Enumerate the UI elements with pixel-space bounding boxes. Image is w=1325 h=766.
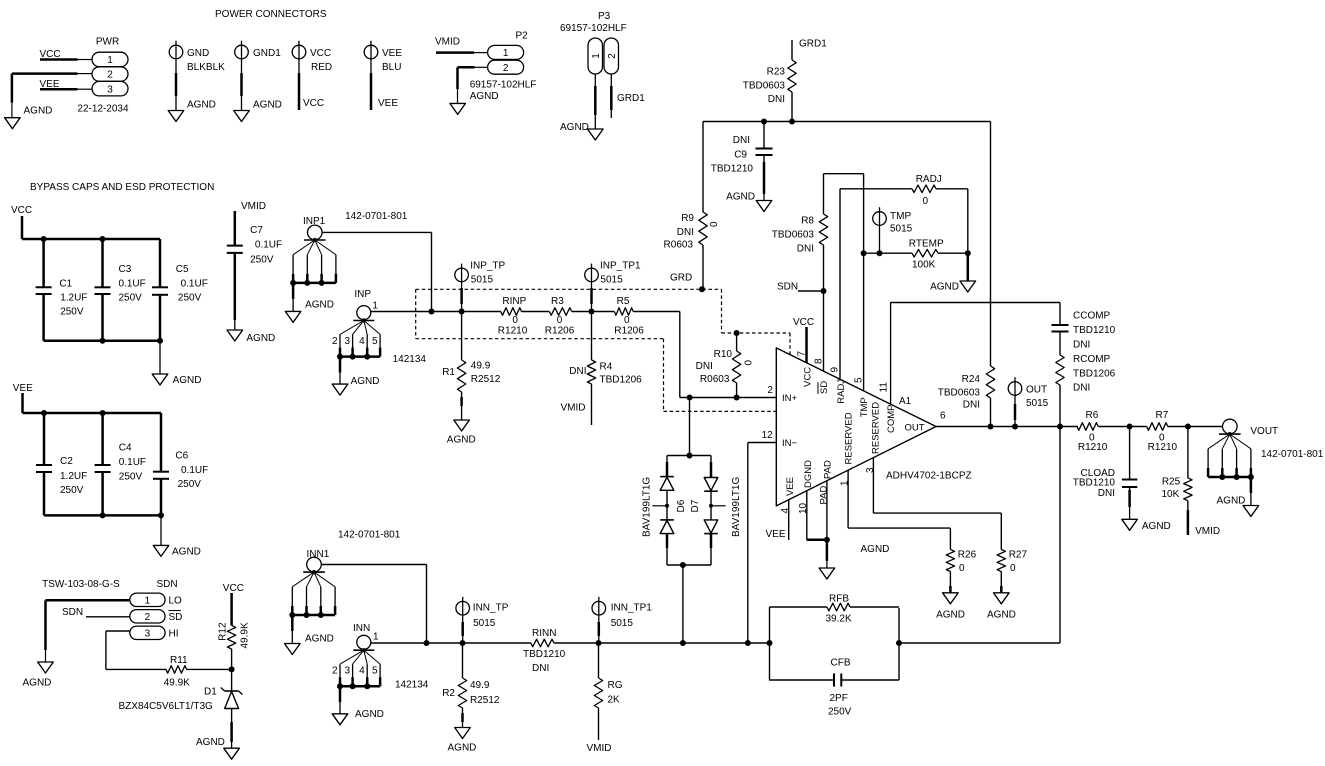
capacitor C4 0.1UF 250V — [95, 413, 146, 515]
svg-text:VCC: VCC — [793, 317, 814, 328]
svg-text:AGND: AGND — [726, 192, 755, 203]
svg-text:RADJ: RADJ — [836, 379, 847, 404]
svg-text:AGND: AGND — [930, 282, 959, 293]
wire INP pin1 along input row — [371, 311, 501, 313]
connector INP1 142-0701-801 — [285, 211, 408, 322]
svg-text:11: 11 — [878, 382, 889, 393]
svg-text:RED: RED — [311, 62, 332, 73]
test point INP_TP 5015 — [455, 261, 506, 312]
svg-text:5015: 5015 — [611, 618, 634, 629]
ground AGND (P2 pin 2) — [450, 103, 466, 114]
svg-text:VEE: VEE — [785, 477, 796, 496]
svg-text:R7: R7 — [1156, 410, 1169, 421]
svg-text:CFB: CFB — [831, 658, 851, 669]
svg-text:250V: 250V — [119, 293, 143, 304]
svg-text:1: 1 — [145, 595, 151, 606]
resistor R8 TBD0603 DNI — [772, 214, 828, 255]
svg-text:DNI: DNI — [733, 135, 750, 146]
svg-text:RESERVED: RESERVED — [844, 412, 855, 464]
svg-text:5015: 5015 — [1026, 398, 1049, 409]
resistor RFB 39.2K — [770, 593, 900, 643]
svg-text:DGND: DGND — [803, 460, 814, 488]
svg-text:BAV199LT1G: BAV199LT1G — [641, 477, 652, 537]
test point GND (BLKBLK) — [169, 41, 225, 111]
resistor R9 DNI 0 R0603 — [664, 212, 720, 251]
svg-text:POWER CONNECTORS: POWER CONNECTORS — [215, 9, 327, 20]
connector P3 (69157-102HLF) — [560, 11, 645, 133]
svg-text:RCOMP: RCOMP — [1073, 354, 1111, 365]
svg-text:3: 3 — [345, 666, 351, 677]
capacitor C6 0.1UF 250V — [153, 413, 208, 515]
svg-text:AGND: AGND — [355, 709, 384, 720]
wire to ground — [159, 341, 161, 374]
ground AGND (RTEMP) — [960, 281, 976, 292]
svg-text:ADHV4702-1BCPZ: ADHV4702-1BCPZ — [886, 471, 972, 482]
connector INN 142134 — [332, 623, 429, 725]
svg-text:22-12-2034: 22-12-2034 — [77, 104, 129, 115]
resistor RG 2K — [587, 643, 623, 754]
wire R12 to node — [231, 649, 233, 669]
svg-text:AGND: AGND — [187, 100, 216, 111]
svg-text:250V: 250V — [178, 479, 202, 490]
wire VCC to R12 — [230, 593, 233, 625]
capacitor CFB 2PF 250V — [770, 643, 900, 718]
svg-text:GND1: GND1 — [253, 48, 281, 59]
junction (TMP line) — [861, 250, 867, 256]
svg-text:VCC: VCC — [11, 205, 32, 216]
svg-text:69157-102HLF: 69157-102HLF — [560, 23, 627, 34]
wire pin 10 DGND to pad — [806, 491, 808, 540]
svg-text:AGND: AGND — [861, 544, 890, 555]
wire RINN to node — [554, 642, 770, 644]
svg-text:DNI: DNI — [696, 361, 713, 372]
ground AGND (VCC bypass) — [152, 374, 168, 385]
junction — [229, 666, 235, 672]
test point INP_TP1 5015 — [585, 261, 641, 312]
svg-text:BYPASS CAPS AND ESD PROTECTION: BYPASS CAPS AND ESD PROTECTION — [30, 182, 214, 193]
connector INN1 142-0701-801 — [285, 530, 401, 655]
svg-text:1.2UF: 1.2UF — [60, 471, 87, 482]
svg-text:12: 12 — [762, 430, 774, 441]
guard ring GRD (dashed) — [416, 289, 790, 411]
junction — [596, 640, 602, 646]
resistor R12 49.9K — [218, 622, 251, 649]
svg-text:49.9K: 49.9K — [240, 622, 251, 648]
svg-text:AGND: AGND — [987, 609, 1016, 620]
svg-text:3: 3 — [107, 84, 113, 95]
junction — [761, 119, 767, 125]
wire R26 to ground — [949, 572, 951, 587]
wire R5 to IN+ row — [633, 311, 680, 313]
ground AGND (R2) — [455, 728, 471, 739]
svg-text:VCC: VCC — [803, 367, 814, 387]
wire switch pin3 to R11 — [106, 630, 130, 632]
wire pin 11 COMP to compensation — [890, 303, 892, 405]
resistor R26 0 — [946, 550, 976, 575]
svg-text:AGND: AGND — [470, 91, 499, 102]
svg-text:R11: R11 — [170, 655, 188, 666]
junction — [687, 395, 693, 401]
diode D6 BAV199LT1G — [641, 398, 711, 566]
svg-text:DNI: DNI — [797, 244, 814, 255]
resistor RCOMP TBD1206 DNI — [1056, 354, 1116, 427]
svg-text:1: 1 — [591, 53, 602, 59]
svg-text:R24: R24 — [962, 374, 981, 385]
svg-text:P2: P2 — [516, 30, 529, 41]
svg-text:LO: LO — [169, 596, 183, 607]
svg-text:49.9: 49.9 — [470, 680, 490, 691]
svg-text:10: 10 — [798, 502, 809, 514]
wire R3 to node — [572, 311, 615, 313]
svg-text:AGND: AGND — [448, 743, 477, 754]
svg-text:250V: 250V — [828, 707, 852, 718]
svg-text:10K: 10K — [1162, 489, 1180, 500]
svg-text:TBD0603: TBD0603 — [938, 388, 981, 399]
svg-text:2: 2 — [145, 612, 151, 623]
connector INP 142134 — [332, 289, 426, 395]
capacitor CLOAD TBD1210 DNI — [1073, 427, 1171, 533]
svg-text:R26: R26 — [958, 550, 977, 561]
svg-text:GND: GND — [187, 48, 209, 59]
svg-text:5015: 5015 — [890, 224, 913, 235]
svg-text:VEE: VEE — [13, 383, 33, 394]
svg-text:AGND: AGND — [196, 737, 225, 748]
svg-text:2K: 2K — [608, 695, 621, 706]
svg-text:TMP: TMP — [859, 397, 870, 417]
capacitor C9 TBD1210 DNI — [711, 122, 773, 203]
svg-text:0.1UF: 0.1UF — [181, 279, 208, 290]
svg-text:R0603: R0603 — [664, 240, 694, 251]
svg-text:AGND: AGND — [253, 100, 282, 111]
wire switch pin1 to AGND — [46, 599, 130, 602]
svg-text:0: 0 — [1010, 563, 1016, 574]
junction — [41, 236, 47, 242]
wire R27 to ground — [1000, 572, 1002, 587]
svg-text:DNI: DNI — [963, 400, 980, 411]
connector SDN switch TSW-103-08-G-S — [42, 579, 182, 640]
svg-text:A1: A1 — [899, 396, 912, 407]
wire GRD bus — [703, 121, 991, 123]
svg-text:100K: 100K — [912, 260, 936, 271]
svg-text:VEE: VEE — [765, 529, 785, 540]
svg-text:TMP: TMP — [890, 211, 911, 222]
svg-text:R1206: R1206 — [614, 325, 644, 336]
svg-text:INN_TP: INN_TP — [473, 602, 509, 613]
svg-text:R12: R12 — [218, 622, 229, 641]
svg-text:R5: R5 — [617, 296, 630, 307]
svg-text:142-0701-801: 142-0701-801 — [1261, 449, 1324, 460]
svg-text:3: 3 — [145, 628, 151, 639]
resistor R10 0 DNI R0603 — [696, 330, 755, 398]
svg-text:INN: INN — [353, 623, 370, 634]
op-amp A1 ADHV4702-1BCPZ — [762, 348, 972, 514]
svg-text:IN−: IN− — [782, 438, 798, 449]
svg-text:AGND: AGND — [246, 333, 275, 344]
connector VOUT 142-0701-801 — [1208, 419, 1324, 516]
svg-text:VMID: VMID — [1195, 526, 1220, 537]
junction — [100, 512, 106, 518]
svg-text:69157-102HLF: 69157-102HLF — [470, 79, 537, 90]
svg-text:P3: P3 — [598, 11, 611, 22]
svg-text:1: 1 — [107, 55, 113, 66]
svg-text:D6: D6 — [676, 499, 687, 512]
svg-text:VMID: VMID — [587, 743, 612, 754]
svg-text:C5: C5 — [176, 264, 189, 275]
svg-text:AGND: AGND — [351, 376, 380, 387]
svg-text:AGND: AGND — [447, 435, 476, 446]
wire pin 4 VEE — [788, 499, 790, 540]
svg-text:D7: D7 — [690, 499, 701, 512]
wire IN- to op-amp — [747, 443, 749, 644]
resistor R1 49.9 R2512 — [442, 312, 501, 446]
svg-text:TBD1210: TBD1210 — [1073, 325, 1116, 336]
svg-text:RINP: RINP — [502, 296, 526, 307]
wire R9 to GRD — [702, 245, 704, 289]
svg-text:DNI: DNI — [768, 94, 785, 105]
svg-text:R25: R25 — [1162, 477, 1181, 488]
svg-text:AGND: AGND — [1217, 496, 1246, 507]
svg-text:49.9: 49.9 — [471, 361, 491, 372]
diode D7 BAV199LT1G — [690, 456, 742, 566]
svg-text:CCOMP: CCOMP — [1073, 311, 1111, 322]
svg-text:6: 6 — [940, 411, 946, 422]
svg-text:R1206: R1206 — [545, 325, 575, 336]
svg-text:5: 5 — [372, 336, 378, 347]
svg-text:R0603: R0603 — [700, 374, 730, 385]
svg-text:BLU: BLU — [382, 62, 401, 73]
capacitor C2 1.2UF 250V — [36, 413, 87, 515]
connector P2 (69157-102HLF) — [435, 30, 536, 103]
junction (PAD) — [824, 537, 830, 543]
svg-text:C4: C4 — [119, 443, 132, 454]
svg-text:TBD1210: TBD1210 — [523, 649, 566, 660]
svg-text:R10: R10 — [714, 349, 733, 360]
svg-text:VCC: VCC — [303, 98, 324, 109]
svg-text:VOUT: VOUT — [1250, 426, 1278, 437]
wire PAD to ground — [826, 540, 829, 561]
svg-text:HI: HI — [169, 628, 179, 639]
resistor R5 0 R1206 — [614, 296, 644, 336]
svg-text:0: 0 — [744, 360, 755, 366]
svg-text:RG: RG — [608, 680, 623, 691]
wire R8 top to TMP line — [823, 174, 825, 214]
svg-text:AGND: AGND — [172, 547, 201, 558]
svg-text:AGND: AGND — [305, 634, 334, 645]
test point GND1 — [235, 41, 282, 111]
svg-text:DNI: DNI — [532, 663, 549, 674]
svg-text:3: 3 — [865, 467, 876, 473]
svg-text:R27: R27 — [1009, 550, 1028, 561]
ground AGND (GND1 test point) — [234, 111, 250, 122]
ground AGND (R27) — [994, 593, 1010, 604]
svg-text:1: 1 — [503, 48, 509, 59]
svg-text:AGND: AGND — [1142, 521, 1171, 532]
test point INN_TP 5015 — [456, 597, 509, 643]
svg-text:2: 2 — [767, 385, 773, 396]
wire to ground — [160, 515, 162, 545]
resistor R24 TBD0603 DNI — [938, 366, 995, 411]
resistor R3 0 R1206 — [545, 296, 575, 336]
svg-text:C2: C2 — [60, 456, 73, 467]
wire GRD bus right to R24 — [990, 122, 992, 367]
ground AGND (C7) — [227, 330, 243, 341]
svg-text:2: 2 — [503, 63, 509, 74]
svg-text:SDN: SDN — [62, 607, 83, 618]
junction (IN- to INN row) — [745, 640, 751, 646]
svg-text:250V: 250V — [178, 293, 202, 304]
ground AGND (R26) — [943, 593, 959, 604]
svg-text:1: 1 — [373, 632, 379, 643]
svg-text:PWR: PWR — [96, 36, 119, 47]
junction — [41, 410, 47, 416]
wire pin 9 RADJ — [839, 189, 841, 379]
svg-text:AGND: AGND — [24, 106, 53, 117]
svg-text:DNI: DNI — [1073, 340, 1090, 351]
svg-text:COMP: COMP — [886, 405, 897, 434]
svg-text:4: 4 — [359, 336, 365, 347]
ground AGND (VEE bypass) — [153, 545, 169, 556]
svg-text:250V: 250V — [60, 307, 84, 318]
junction — [589, 309, 595, 315]
svg-text:DNI: DNI — [569, 366, 586, 377]
test point VEE (BLU) — [364, 41, 402, 110]
svg-text:39.2K: 39.2K — [826, 614, 852, 625]
svg-text:1.2UF: 1.2UF — [60, 293, 87, 304]
svg-text:250V: 250V — [60, 485, 84, 496]
svg-text:0.1UF: 0.1UF — [255, 240, 282, 251]
svg-text:2: 2 — [607, 53, 618, 59]
svg-text:GRD1: GRD1 — [799, 39, 827, 50]
svg-text:GRD1: GRD1 — [617, 93, 645, 104]
junction — [459, 309, 465, 315]
svg-text:SD: SD — [169, 612, 183, 623]
test point VCC (RED) — [292, 41, 332, 110]
svg-text:C1: C1 — [59, 279, 72, 290]
svg-text:R1: R1 — [442, 367, 455, 378]
junction — [424, 640, 430, 646]
resistor RINP 0 R1210 — [498, 296, 528, 336]
test point OUT 5015 — [1008, 377, 1048, 426]
resistor R25 10K — [1162, 427, 1221, 538]
svg-text:BAV199LT1G: BAV199LT1G — [731, 477, 742, 537]
junction (feedback left) — [767, 640, 773, 646]
capacitor CCOMP TBD1210 DNI — [1052, 303, 1116, 356]
svg-text:R23: R23 — [767, 67, 786, 78]
svg-text:TSW-103-08-G-S: TSW-103-08-G-S — [42, 579, 120, 590]
ground AGND (C9) — [756, 201, 772, 212]
resistor R11 49.9K — [164, 655, 190, 688]
resistor R6 0 R1210 — [1077, 410, 1108, 453]
wire R24 to OUT — [990, 398, 992, 427]
svg-text:VEE: VEE — [378, 98, 398, 109]
svg-text:5: 5 — [372, 666, 378, 677]
junction — [1127, 424, 1133, 430]
svg-text:VMID: VMID — [241, 201, 266, 212]
svg-text:INP: INP — [354, 289, 371, 300]
svg-text:R6: R6 — [1086, 410, 1099, 421]
wire RTEMP to ground — [938, 252, 968, 254]
ground AGND (R1) — [454, 420, 470, 431]
wire INN pin1 along row — [371, 642, 531, 644]
svg-text:R1210: R1210 — [1148, 442, 1178, 453]
wire R23 to GRD bus — [791, 92, 793, 122]
junction — [100, 338, 106, 344]
svg-text:R2512: R2512 — [471, 374, 501, 385]
resistor R7 0 R1210 — [1147, 410, 1178, 453]
resistor RINN TBD1210 DNI — [523, 628, 566, 674]
svg-text:0: 0 — [709, 221, 720, 227]
capacitor C5 0.1UF 250V — [152, 239, 208, 341]
junction — [988, 424, 994, 430]
svg-text:142134: 142134 — [395, 680, 429, 691]
svg-text:RTEMP: RTEMP — [909, 239, 944, 250]
svg-text:R2: R2 — [442, 688, 455, 699]
svg-text:VCC: VCC — [310, 48, 331, 59]
svg-text:5015: 5015 — [473, 618, 496, 629]
ground AGND (GND test point) — [168, 111, 184, 122]
capacitor C3 0.1UF 250V — [95, 239, 146, 341]
svg-text:SD: SD — [819, 381, 830, 394]
resistor R23 TBD0603 DNI — [743, 60, 796, 105]
wire RINP to R3 — [522, 311, 550, 313]
svg-text:2: 2 — [107, 70, 113, 81]
wire INP1 to input node — [322, 231, 431, 233]
svg-text:8: 8 — [813, 358, 824, 364]
ground AGND (switch pin1) — [38, 662, 54, 673]
svg-text:4: 4 — [359, 666, 365, 677]
svg-text:TBD0603: TBD0603 — [772, 230, 815, 241]
junction (diode to INN row) — [680, 640, 686, 646]
svg-text:RINN: RINN — [532, 628, 556, 639]
wire feedback to output — [899, 642, 1060, 644]
svg-text:INP_TP: INP_TP — [470, 261, 505, 272]
svg-text:VEE: VEE — [382, 48, 402, 59]
svg-text:2PF: 2PF — [830, 693, 848, 704]
wire diode bottom rail — [667, 564, 711, 566]
svg-text:R1210: R1210 — [1078, 442, 1108, 453]
ground AGND (PAD) — [819, 568, 835, 579]
svg-text:VCC: VCC — [223, 583, 244, 594]
wire TMP line to RTEMP — [864, 252, 912, 254]
resistor RTEMP 100K — [909, 239, 944, 271]
svg-text:R9: R9 — [681, 213, 694, 224]
svg-text:SDN: SDN — [157, 579, 178, 590]
wire VCC to pin 7 — [805, 327, 808, 363]
svg-text:0.1UF: 0.1UF — [119, 279, 146, 290]
test point TMP 5015 — [873, 207, 913, 253]
svg-text:5015: 5015 — [600, 274, 623, 285]
wire R6 to R7 — [1098, 426, 1147, 428]
svg-text:RADJ: RADJ — [916, 174, 942, 185]
svg-text:R8: R8 — [801, 216, 814, 227]
junction (feedback right) — [896, 640, 902, 646]
svg-text:OUT: OUT — [905, 423, 925, 434]
svg-text:DNI: DNI — [677, 227, 694, 238]
svg-text:BZX84C5V6LT1/T3G: BZX84C5V6LT1/T3G — [119, 701, 214, 712]
capacitor C7 0.1UF 250V (VMID) — [227, 201, 282, 344]
svg-text:AGND: AGND — [305, 300, 334, 311]
svg-text:C3: C3 — [119, 264, 132, 275]
resistor R27 0 — [997, 550, 1027, 575]
junction — [429, 309, 435, 315]
svg-text:3: 3 — [345, 336, 351, 347]
wire OUT row — [936, 426, 1078, 428]
svg-text:PAD: PAD — [823, 460, 834, 479]
svg-text:AGND: AGND — [173, 375, 202, 386]
svg-text:GRD: GRD — [670, 273, 692, 284]
resistor RADJ 0 — [912, 174, 942, 207]
svg-text:VMID: VMID — [435, 36, 460, 47]
